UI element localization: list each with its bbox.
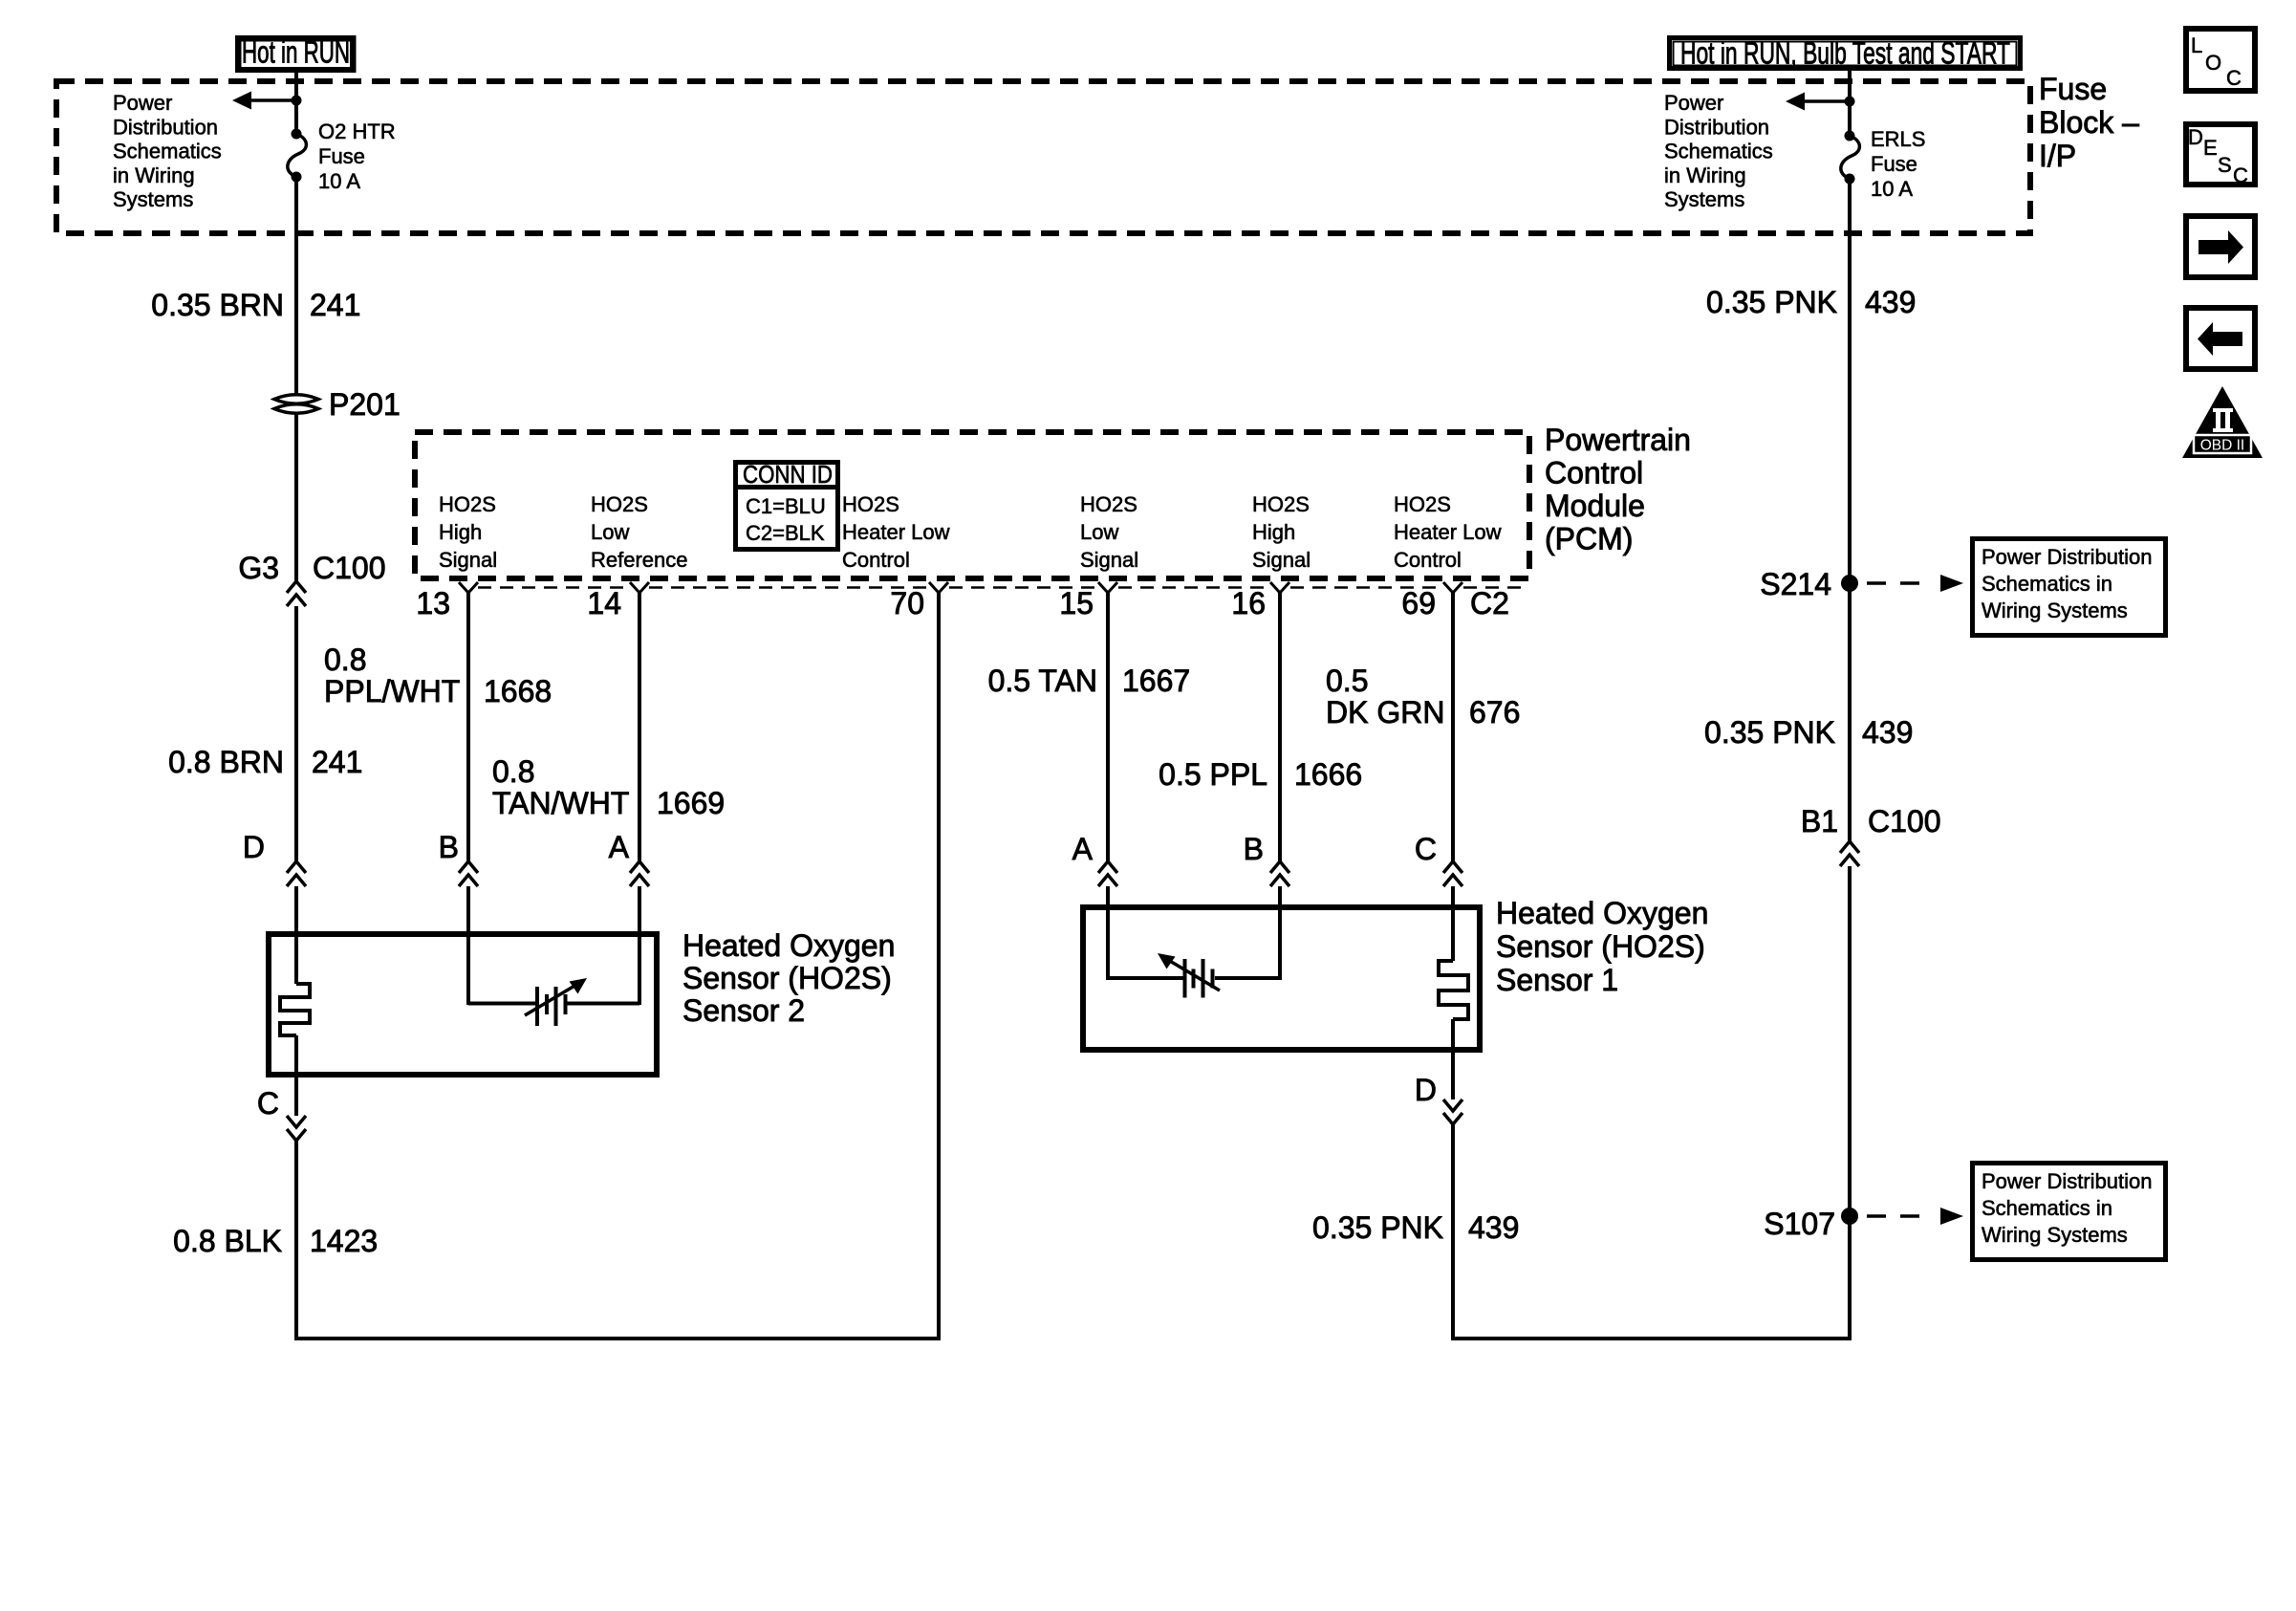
svg-text:Fuse: Fuse [2039, 72, 2107, 106]
svg-text:Sensor 2: Sensor 2 [682, 993, 805, 1028]
svg-text:Signal: Signal [439, 548, 497, 572]
svg-text:G3: G3 [238, 551, 279, 585]
svg-text:Wiring Systems: Wiring Systems [1982, 599, 2128, 622]
svg-text:TAN/WHT: TAN/WHT [492, 786, 629, 820]
svg-text:0.5: 0.5 [1326, 664, 1368, 698]
svg-text:A: A [609, 830, 630, 864]
svg-text:C: C [1415, 832, 1437, 866]
svg-text:70: 70 [890, 586, 924, 620]
svg-text:B1: B1 [1801, 804, 1838, 838]
svg-text:O2 HTR: O2 HTR [318, 120, 396, 143]
svg-text:0.8 BRN: 0.8 BRN [168, 745, 284, 779]
svg-text:1669: 1669 [657, 786, 725, 820]
svg-text:241: 241 [310, 288, 360, 322]
svg-text:C100: C100 [1868, 804, 1941, 838]
svg-text:P201: P201 [329, 387, 401, 422]
svg-text:C: C [2226, 66, 2242, 90]
svg-text:C2: C2 [1470, 586, 1509, 620]
svg-text:1667: 1667 [1122, 664, 1190, 698]
svg-text:Hot in RUN: Hot in RUN [242, 35, 350, 70]
svg-text:Low: Low [1080, 520, 1118, 544]
svg-text:Distribution: Distribution [1664, 115, 1769, 139]
svg-text:E: E [2203, 136, 2218, 160]
svg-text:Control: Control [1545, 456, 1643, 490]
svg-text:Block –: Block – [2039, 105, 2139, 140]
svg-text:Powertrain: Powertrain [1545, 423, 1691, 457]
svg-text:High: High [439, 520, 482, 544]
svg-text:Distribution: Distribution [113, 115, 218, 139]
svg-text:ERLS: ERLS [1871, 127, 1925, 151]
svg-text:HO2S: HO2S [1080, 492, 1137, 516]
svg-text:0.5 PPL: 0.5 PPL [1159, 757, 1267, 792]
svg-text:15: 15 [1059, 586, 1094, 620]
svg-text:0.8 BLK: 0.8 BLK [173, 1224, 282, 1258]
svg-text:1666: 1666 [1294, 757, 1362, 792]
svg-text:14: 14 [587, 586, 621, 620]
svg-text:0.8: 0.8 [324, 642, 366, 677]
svg-text:Systems: Systems [113, 187, 193, 211]
svg-text:Control: Control [842, 548, 910, 572]
svg-text:1423: 1423 [310, 1224, 378, 1258]
svg-text:Fuse: Fuse [1871, 152, 1917, 176]
svg-text:in Wiring: in Wiring [113, 163, 195, 187]
svg-text:Sensor 1: Sensor 1 [1496, 963, 1618, 997]
svg-text:439: 439 [1865, 285, 1916, 319]
svg-text:241: 241 [312, 745, 362, 779]
svg-text:HO2S: HO2S [842, 492, 899, 516]
svg-text:Heated Oxygen: Heated Oxygen [682, 928, 895, 963]
svg-text:(PCM): (PCM) [1545, 522, 1633, 556]
svg-text:D: D [243, 830, 265, 864]
svg-text:0.35 PNK: 0.35 PNK [1706, 285, 1837, 319]
svg-text:HO2S: HO2S [591, 492, 648, 516]
svg-text:HO2S: HO2S [439, 492, 496, 516]
svg-text:B: B [1244, 832, 1264, 866]
svg-text:A: A [1072, 832, 1094, 866]
svg-text:Low: Low [591, 520, 629, 544]
svg-text:C: C [2233, 163, 2248, 187]
svg-text:L: L [2191, 33, 2202, 57]
svg-text:I/P: I/P [2039, 139, 2076, 173]
svg-text:B: B [439, 830, 459, 864]
svg-text:C: C [257, 1086, 279, 1121]
svg-text:0.8: 0.8 [492, 754, 534, 789]
svg-text:Sensor (HO2S): Sensor (HO2S) [682, 961, 892, 995]
svg-text:Sensor (HO2S): Sensor (HO2S) [1496, 929, 1705, 964]
svg-text:D: D [1415, 1073, 1437, 1107]
svg-text:Control: Control [1394, 548, 1462, 572]
svg-text:Heater Low: Heater Low [842, 520, 950, 544]
svg-text:13: 13 [416, 586, 450, 620]
svg-text:0.35 PNK: 0.35 PNK [1704, 715, 1835, 750]
svg-text:Schematics: Schematics [1664, 140, 1773, 163]
svg-text:D: D [2188, 125, 2203, 149]
svg-text:0.35 BRN: 0.35 BRN [151, 288, 284, 322]
svg-text:Fuse: Fuse [318, 144, 365, 168]
svg-text:OBD II: OBD II [2200, 438, 2245, 454]
svg-text:Heated Oxygen: Heated Oxygen [1496, 896, 1708, 930]
svg-text:Systems: Systems [1664, 187, 1744, 211]
svg-text:HO2S: HO2S [1252, 492, 1310, 516]
svg-text:Power: Power [1664, 91, 1723, 115]
svg-text:C1=BLU: C1=BLU [746, 494, 826, 518]
svg-text:10 A: 10 A [1871, 177, 1913, 201]
svg-text:1668: 1668 [484, 674, 552, 708]
svg-text:Hot in RUN, Bulb Test and STAR: Hot in RUN, Bulb Test and START [1680, 36, 2010, 71]
svg-text:Signal: Signal [1252, 548, 1310, 572]
svg-text:Heater Low: Heater Low [1394, 520, 1502, 544]
svg-text:in Wiring: in Wiring [1664, 163, 1746, 187]
svg-text:439: 439 [1468, 1210, 1519, 1245]
svg-text:S: S [2218, 153, 2232, 177]
svg-text:CONN ID: CONN ID [743, 460, 833, 489]
svg-text:69: 69 [1401, 586, 1436, 620]
svg-text:C100: C100 [313, 551, 386, 585]
svg-text:10 A: 10 A [318, 169, 360, 193]
svg-text:High: High [1252, 520, 1295, 544]
svg-text:Schematics: Schematics [113, 140, 222, 163]
svg-text:Signal: Signal [1080, 548, 1138, 572]
svg-text:HO2S: HO2S [1394, 492, 1451, 516]
svg-text:Power Distribution: Power Distribution [1982, 1169, 2153, 1193]
svg-text:Schematics in: Schematics in [1982, 1196, 2112, 1220]
svg-text:Module: Module [1545, 489, 1645, 523]
svg-text:Schematics in: Schematics in [1982, 572, 2112, 596]
svg-text:439: 439 [1862, 715, 1913, 750]
svg-text:0.5 TAN: 0.5 TAN [988, 664, 1097, 698]
svg-text:676: 676 [1469, 695, 1520, 729]
svg-text:C2=BLK: C2=BLK [746, 521, 825, 545]
svg-text:PPL/WHT: PPL/WHT [324, 674, 460, 708]
svg-text:Power: Power [113, 91, 172, 115]
svg-text:Reference: Reference [591, 548, 688, 572]
svg-text:S214: S214 [1760, 567, 1831, 601]
svg-text:DK GRN: DK GRN [1326, 695, 1444, 729]
svg-text:S107: S107 [1764, 1207, 1835, 1241]
svg-text:0.35 PNK: 0.35 PNK [1312, 1210, 1443, 1245]
svg-text:Wiring Systems: Wiring Systems [1982, 1223, 2128, 1247]
svg-text:16: 16 [1231, 586, 1266, 620]
svg-text:Power Distribution: Power Distribution [1982, 545, 2153, 569]
svg-text:O: O [2205, 51, 2221, 75]
